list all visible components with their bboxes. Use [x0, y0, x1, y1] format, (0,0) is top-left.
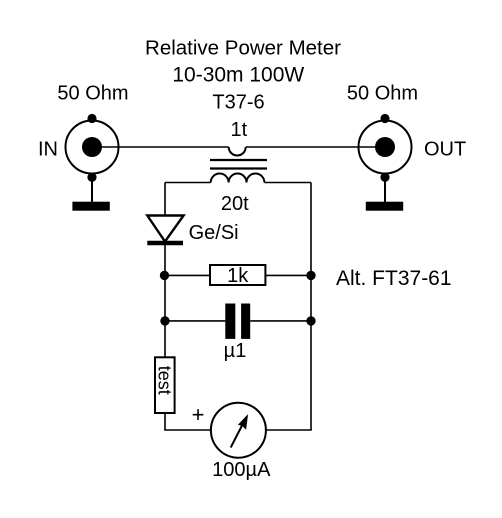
svg-text:Ge/Si: Ge/Si: [189, 222, 239, 244]
svg-text:20t: 20t: [221, 193, 249, 215]
node junction dot left rail at capacitor: [160, 316, 169, 325]
diode D1: [147, 216, 183, 244]
wire meter to right rail: [266, 429, 312, 431]
resistor R1 1k: [210, 265, 265, 287]
label + meter polarity: [192, 402, 205, 427]
label 50 Ohm (output): [347, 83, 418, 105]
transformer T1 secondary winding (20 turns): [211, 174, 265, 183]
svg-text:1t: 1t: [231, 119, 248, 141]
title line 1: [145, 37, 341, 60]
label IN: [38, 139, 58, 161]
label u1 capacitor value: [224, 340, 247, 362]
title line 3 core label T37-6: [212, 92, 264, 114]
svg-text:+: +: [192, 402, 205, 427]
wire left rail diode to test resistor: [164, 243, 166, 358]
wire left rail to capacitor C1: [165, 320, 225, 322]
resistor R2 test: [155, 357, 175, 413]
wire test resistor to bottom corner: [164, 413, 166, 430]
label Ge/Si: [189, 222, 239, 244]
svg-text:100µA: 100µA: [212, 459, 271, 481]
svg-text:Relative Power Meter: Relative Power Meter: [145, 37, 341, 60]
svg-text:test: test: [155, 366, 175, 395]
wire right rail: [310, 183, 312, 431]
label OUT: [424, 139, 466, 161]
label Alt. FT37-61: [336, 267, 452, 290]
wire left rail to resistor R1: [165, 274, 210, 276]
ground (input): [72, 179, 109, 211]
svg-text:µ1: µ1: [224, 340, 247, 362]
wire bottom left to meter: [164, 429, 210, 431]
svg-text:50 Ohm: 50 Ohm: [57, 83, 128, 105]
wire secondary right to right rail: [264, 182, 311, 184]
svg-text:IN: IN: [38, 139, 58, 161]
label 1t primary turns: [231, 119, 248, 141]
ground (output): [366, 179, 403, 211]
label 20t secondary turns: [221, 193, 249, 215]
svg-text:OUT: OUT: [424, 139, 466, 161]
transformer T1 primary winding (1 turn): [229, 147, 246, 156]
meter M1: [211, 403, 266, 458]
connector J1 (IN): [66, 114, 119, 182]
svg-text:T37-6: T37-6: [212, 92, 264, 114]
capacitor C1: [225, 304, 250, 339]
wire left rail top to diode: [164, 183, 166, 217]
svg-text:50 Ohm: 50 Ohm: [347, 83, 418, 105]
label 50 Ohm (input): [57, 83, 128, 105]
wire secondary left to left rail: [165, 182, 211, 184]
node junction dot right rail at 1k: [306, 271, 315, 280]
svg-text:Alt. FT37-61: Alt. FT37-61: [336, 267, 452, 290]
svg-text:10-30m 100W: 10-30m 100W: [172, 64, 304, 87]
node junction dot right rail at capacitor: [306, 316, 315, 325]
node junction dot left rail at 1k: [160, 271, 169, 280]
wire resistor R1 to right rail: [265, 274, 311, 276]
transformer T1 core: [210, 160, 267, 169]
wire main line transformer to OUT: [246, 146, 385, 148]
label 100uA meter scale: [212, 459, 271, 481]
connector J2 (OUT): [359, 114, 412, 182]
wire main line IN to transformer: [92, 146, 229, 148]
title line 2: [172, 64, 304, 87]
svg-text:1k: 1k: [227, 265, 249, 287]
wire capacitor C1 to right rail: [250, 320, 311, 322]
